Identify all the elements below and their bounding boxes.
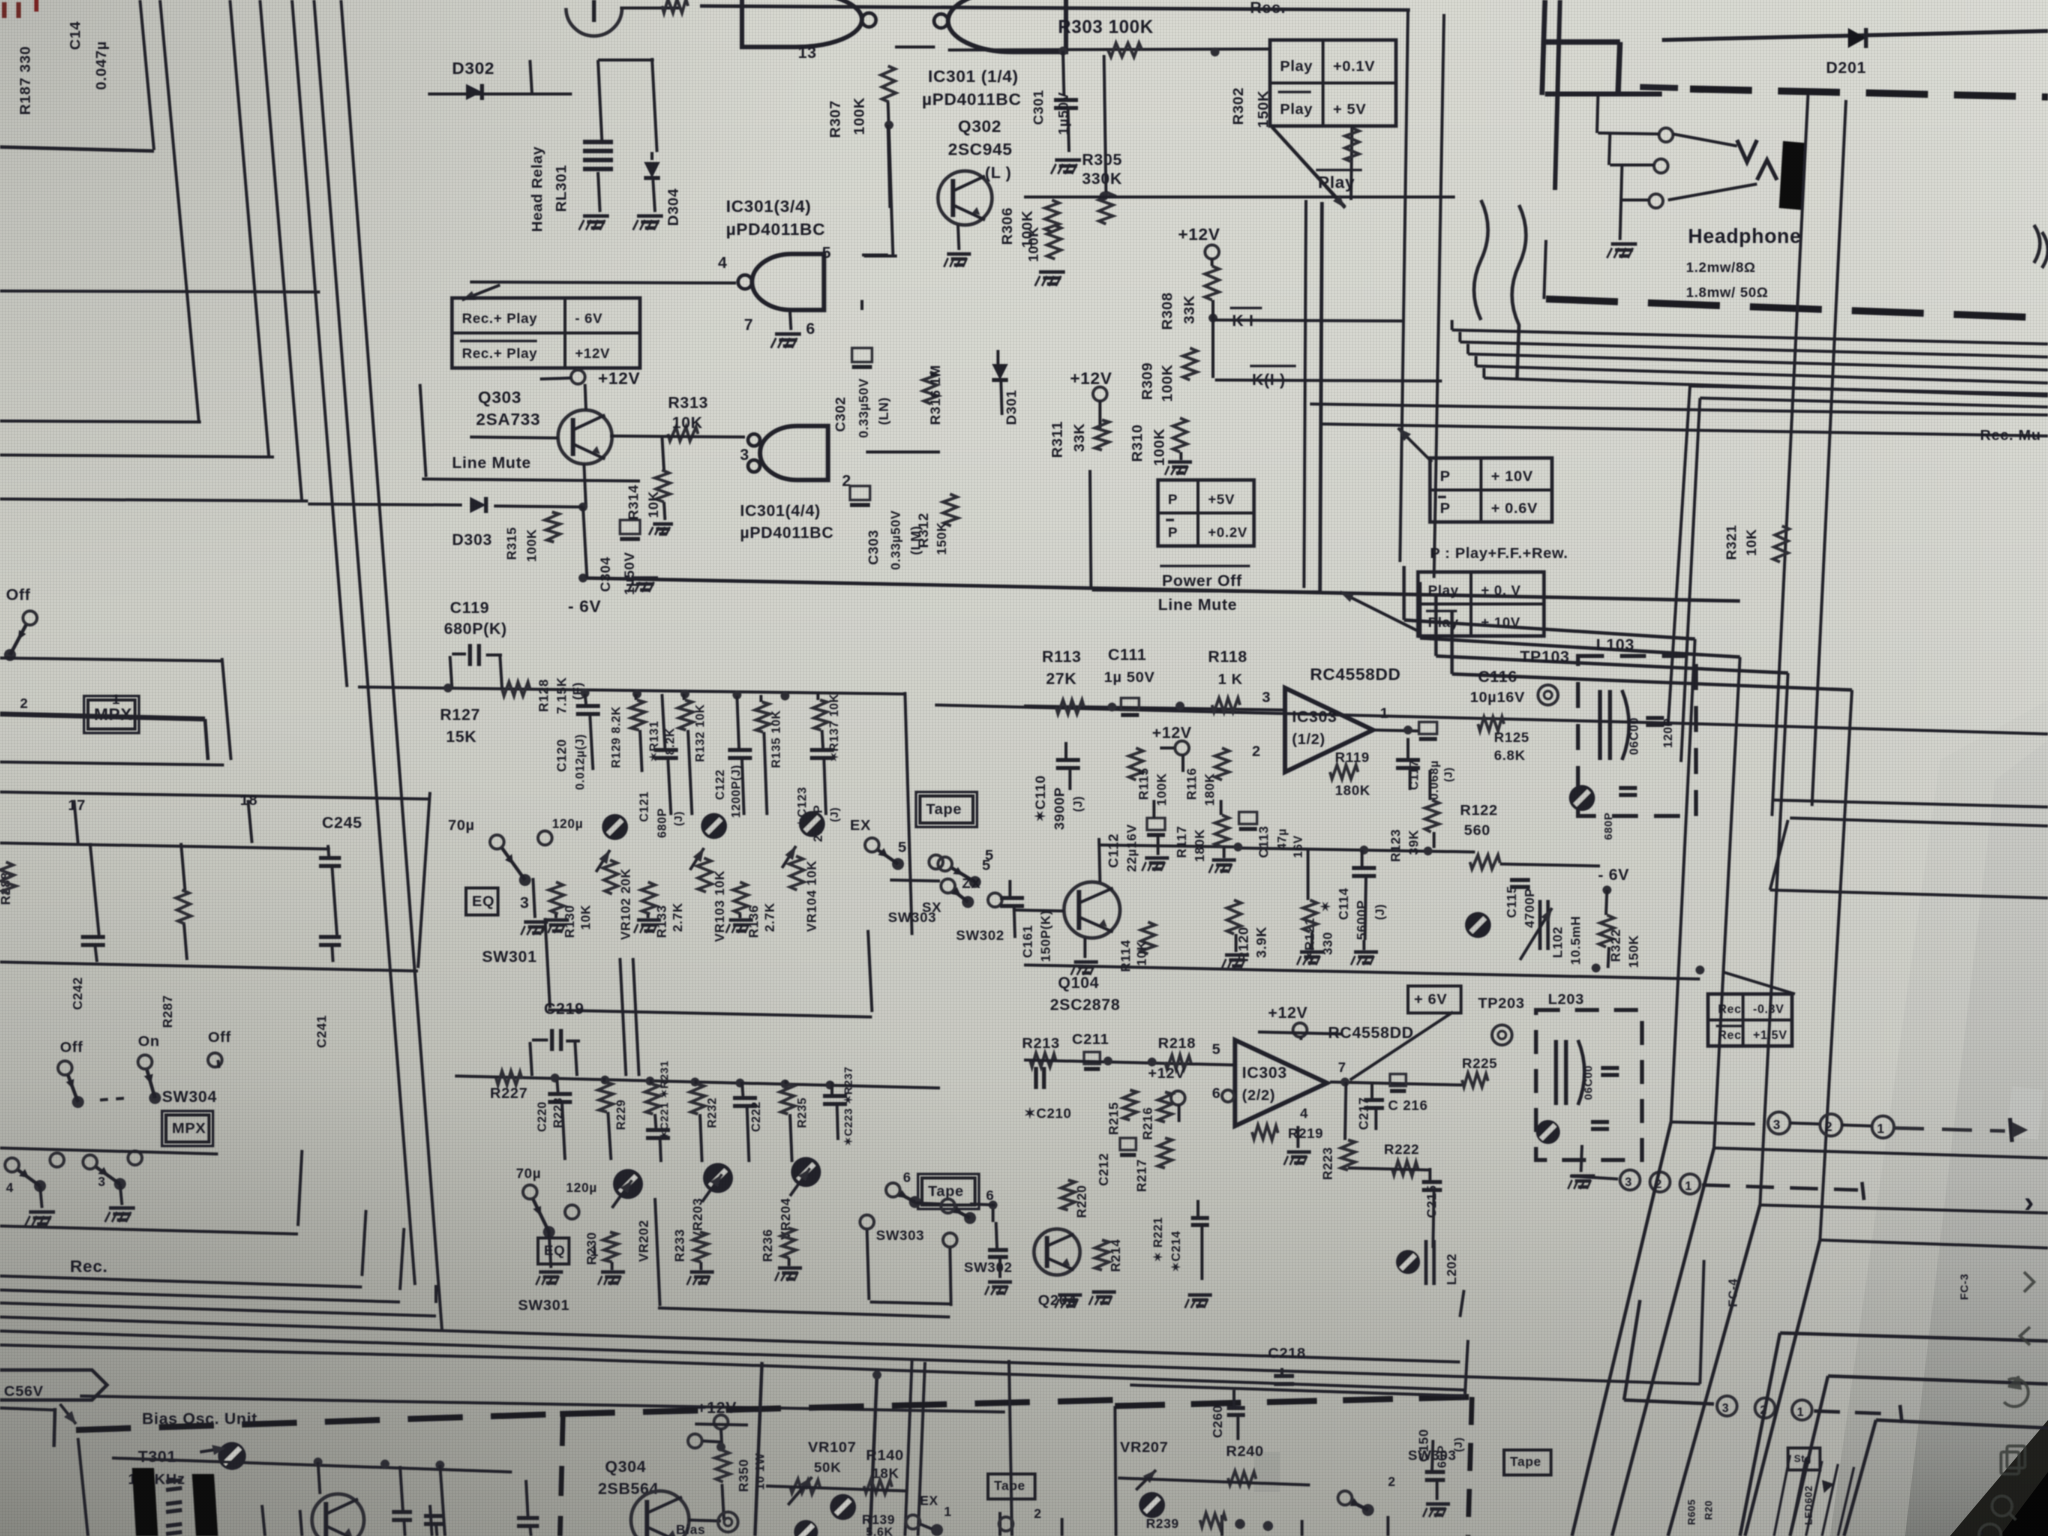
switch SW301 row2 bbox=[523, 1185, 537, 1199]
wire dashed to edge bbox=[1894, 1128, 2005, 1131]
resistor R122 bbox=[1470, 855, 1500, 869]
trimmer T301 bbox=[218, 1442, 246, 1470]
capacitor C122 bbox=[737, 696, 739, 748]
table Play +0.1V +5V bbox=[1270, 40, 1396, 126]
resistor R121 bbox=[1303, 900, 1317, 932]
vertical x1115 bbox=[1115, 1406, 1116, 1536]
resistor R213 bbox=[1030, 1053, 1056, 1067]
dashed heavy line top-right bbox=[1640, 87, 1678, 88]
trimmer VR103 circle bbox=[701, 813, 727, 839]
label Tape box 3 bbox=[988, 1474, 1035, 1499]
dashed bias top right extension bbox=[1115, 1397, 1470, 1406]
wire lower right corner 3 bbox=[1760, 1205, 2048, 1213]
dashed vertical right of bias bbox=[1468, 1397, 1472, 1536]
resistor R303 bbox=[1108, 43, 1142, 57]
L203 capacitor bbox=[1601, 1066, 1619, 1070]
wire K I east bbox=[1215, 320, 1405, 321]
transistor Q104 bbox=[1064, 882, 1120, 938]
capacitor C110 bbox=[1056, 758, 1080, 762]
test point TP103 bbox=[1538, 685, 1558, 705]
resistor R120 bbox=[1227, 900, 1241, 934]
wire down to row2 a bbox=[620, 958, 626, 1076]
switch row2 right b bbox=[941, 1199, 955, 1213]
wire bias second line bbox=[80, 1396, 1005, 1412]
wire fan line 4 bbox=[1476, 366, 2048, 383]
ground relay bbox=[583, 214, 609, 218]
wire VR row bbox=[766, 1486, 908, 1491]
trimmer VR202 bbox=[613, 1169, 643, 1199]
node 2 row3 bbox=[1755, 1398, 1775, 1418]
label EQ boxed bbox=[466, 888, 498, 915]
arrow to play table bbox=[1340, 592, 1420, 632]
trimmer VR102 bbox=[596, 850, 610, 872]
capacitor C114 bbox=[1352, 866, 1376, 870]
wire long mid-lower bus bbox=[1024, 965, 1700, 979]
power +12V bias bbox=[714, 1415, 728, 1429]
resistor R123 bbox=[1425, 800, 1439, 832]
wire middle bus 4 bbox=[1452, 674, 1852, 690]
node 1 bbox=[1872, 1116, 1894, 1138]
resistor R118 bbox=[1212, 698, 1240, 712]
dark corner bottom-right bbox=[1950, 1420, 2048, 1536]
wire fan line 3 bbox=[1468, 354, 2048, 370]
wire opamp1 input row bbox=[1024, 706, 1285, 710]
box rec-mute top edge bbox=[1690, 386, 2048, 394]
resistor R310 bbox=[1173, 418, 1187, 452]
arrow diagonal from table bbox=[1272, 127, 1345, 207]
grounds MPX bbox=[40, 1186, 42, 1208]
transistor Q303 bbox=[558, 410, 612, 464]
label MPX upper boxed bbox=[88, 700, 135, 729]
resistor R219 bbox=[1252, 1125, 1278, 1140]
ground L203 bbox=[1581, 1145, 1582, 1172]
resistor R223 bbox=[1341, 1140, 1355, 1170]
resistor R240 bbox=[1228, 1471, 1256, 1486]
capacitor C241 bbox=[319, 935, 341, 939]
corner up right bbox=[1465, 1340, 1468, 1394]
row2 junctions bbox=[551, 1074, 560, 1083]
ground R120 bbox=[1235, 934, 1238, 952]
wire Q304 base bbox=[688, 1520, 721, 1521]
box power-off outline bbox=[1090, 470, 1091, 588]
wire EQ row 2 bbox=[455, 1076, 940, 1088]
wire K II east bbox=[1215, 380, 1442, 381]
ground bbox=[1039, 270, 1065, 274]
diagonal pointer bbox=[1723, 972, 1795, 994]
wire right single east bbox=[1770, 890, 2048, 898]
jack contact V bbox=[1737, 140, 1757, 162]
wire off box bbox=[0, 658, 222, 661]
wire big box bottom bbox=[935, 705, 1668, 723]
wire relay top bbox=[598, 59, 654, 62]
wire vertical pair below staircase bbox=[905, 1360, 912, 1536]
capacitor C161 bbox=[1000, 896, 1024, 900]
resistor R217 bbox=[1158, 1138, 1172, 1168]
wire band line F bbox=[0, 1331, 1700, 1384]
wire bottom stubs bbox=[262, 1505, 265, 1536]
label Tape box row1 bbox=[920, 796, 973, 823]
wire gate4 out bbox=[866, 451, 940, 454]
connector squiggle b bbox=[1512, 205, 1526, 380]
node 1 row2 bbox=[1680, 1174, 1700, 1194]
capacitor C221 bbox=[655, 1114, 656, 1128]
wire bus line 2 bbox=[230, 0, 269, 458]
trimmer VR207 bbox=[1136, 1470, 1156, 1490]
trimmer VR107 adj bbox=[830, 1494, 856, 1520]
terminal row2 bbox=[50, 1153, 64, 1167]
junction K line bbox=[1209, 314, 1218, 323]
test point TP203 bbox=[1492, 1025, 1512, 1045]
dashed row2 bbox=[1702, 1185, 1858, 1190]
wire band line E bbox=[0, 1317, 1460, 1362]
grounds bbox=[1354, 950, 1378, 954]
power +6V box bbox=[1408, 986, 1461, 1013]
capacitor C260 bbox=[1227, 1406, 1245, 1410]
power +12V opamp1 bbox=[1175, 741, 1189, 755]
trimmer VR203 bbox=[703, 1163, 733, 1193]
wire bias top solid bbox=[569, 1359, 1465, 1390]
capacitor C212 bbox=[1120, 1138, 1136, 1150]
wire R122 east bbox=[1500, 864, 1600, 866]
resistor R117 bbox=[1215, 815, 1229, 847]
node 3 row2 bbox=[1620, 1170, 1640, 1190]
ground D304 bbox=[637, 214, 663, 218]
L203 cap2 bbox=[1591, 1120, 1609, 1124]
wire inner row bbox=[0, 843, 330, 849]
label Stg boxed bbox=[1788, 1448, 1820, 1470]
power +12V opamp2 top bbox=[1293, 1023, 1307, 1037]
resistor R316 bbox=[923, 372, 938, 404]
wire long line-mute bottom bbox=[583, 578, 1740, 601]
trimmer VR204 bbox=[791, 1157, 821, 1187]
transistor bias left bbox=[312, 1494, 364, 1536]
resistor R132 bbox=[678, 700, 693, 730]
terminal SW302 row2 bbox=[943, 1233, 957, 1247]
wire main control line bbox=[1024, 196, 1455, 199]
NAND gate IC301(3/4) mirrored bbox=[752, 254, 824, 310]
vertical 18 bbox=[248, 800, 252, 843]
resistor R309 bbox=[1183, 348, 1197, 380]
resistor R315 bbox=[545, 512, 560, 542]
wire fan line 6 bbox=[1310, 404, 2048, 415]
capacitor C210 bbox=[1034, 1067, 1038, 1089]
wire fan line 2 bbox=[1460, 342, 2048, 357]
wire R305 column bbox=[1104, 55, 1106, 192]
capacitor C303 bbox=[850, 486, 870, 500]
power +12V mid bbox=[1093, 387, 1107, 401]
box corner bottom-left of bias bbox=[0, 1408, 55, 1410]
vertical continuation 4 bbox=[1745, 1240, 1820, 1536]
inductor L203 dashed box bbox=[1536, 1010, 1642, 1160]
ground R230 bbox=[611, 1262, 614, 1270]
bias wires bbox=[440, 1465, 445, 1536]
switch MPX a bbox=[58, 1061, 72, 1075]
resistor R125 bbox=[1478, 717, 1504, 731]
power +12V Q303 bbox=[571, 370, 585, 384]
node 1 row3 bbox=[1792, 1400, 1812, 1420]
label Tape box 4 bbox=[1504, 1450, 1551, 1475]
dashed row3 bbox=[1814, 1411, 1896, 1414]
wire box vertical x762 bbox=[755, 1362, 762, 1536]
jack terminal 3 bbox=[1649, 194, 1663, 208]
verticals from headphone dash down bbox=[1772, 95, 1808, 816]
resistor R313 bbox=[668, 427, 698, 441]
inductor L103 dashed box bbox=[1578, 656, 1696, 816]
jack terminal 2 bbox=[1654, 159, 1668, 173]
resistor R135 bbox=[755, 702, 770, 732]
variable resistor VR107 bbox=[790, 1479, 820, 1494]
resistor R115 bbox=[1129, 748, 1143, 780]
capacitor C115 bbox=[1510, 878, 1530, 882]
terminal double bias bbox=[718, 1512, 738, 1532]
resistor R218 bbox=[1165, 1055, 1191, 1069]
resistor R350 bbox=[715, 1450, 730, 1482]
junction -6V bbox=[1603, 886, 1612, 895]
wire opamp2 row bbox=[1024, 1060, 1235, 1065]
resistor R133 bbox=[641, 882, 656, 914]
wire bias row bbox=[112, 1458, 512, 1472]
capacitor C111 bbox=[1121, 698, 1139, 710]
table P +10V +0.6V bbox=[1430, 458, 1552, 522]
resistor R137 bbox=[813, 700, 828, 730]
wire pair right of box bbox=[1304, 200, 1306, 588]
trimmer L103 bbox=[1569, 785, 1595, 811]
wire EX link bbox=[890, 880, 940, 881]
table Rec -0.3V +1.5V bbox=[1708, 994, 1792, 1046]
switch MPX b bbox=[138, 1055, 152, 1069]
wire bus line 1 bbox=[160, 0, 199, 423]
wire emitter to -6V bbox=[584, 464, 586, 507]
wire link bbox=[915, 1203, 940, 1204]
arrow from C56V bbox=[60, 1404, 76, 1424]
wire gate2 output bbox=[895, 46, 935, 49]
resistor R232 bbox=[690, 1084, 705, 1114]
resistor R227 bbox=[496, 1071, 522, 1085]
capacitor C245 sym bbox=[319, 856, 341, 860]
wire mid join bbox=[1238, 848, 1475, 852]
resistor R220 bbox=[1061, 1180, 1075, 1210]
resistor R216 bbox=[1158, 1092, 1172, 1122]
capacitor C222 bbox=[742, 1082, 743, 1096]
switch row3 bbox=[1338, 1491, 1352, 1505]
LED602 cluster verticals bbox=[1774, 1455, 1790, 1536]
frame row2 staircase bbox=[655, 1198, 660, 1306]
capacitor C120 bbox=[585, 694, 586, 704]
wire base-gate4 bbox=[610, 436, 745, 437]
transistor Q304 bbox=[631, 1491, 689, 1536]
wire middle bus 1 bbox=[1404, 620, 1695, 639]
wire MPX frame bbox=[0, 1148, 218, 1154]
wire thick stub bbox=[0, 714, 205, 719]
trimmer VR104 circle bbox=[799, 811, 825, 837]
table Rec.+Play -6V +12V bbox=[452, 298, 640, 368]
box inner right edge bbox=[1320, 202, 1322, 592]
junction dots bottom bbox=[1235, 1519, 1245, 1529]
trimmer VR104 bbox=[782, 846, 796, 868]
wire bus line 4 bbox=[292, 0, 347, 687]
resistor R306 bbox=[1045, 200, 1059, 232]
box relay control outline bbox=[700, 6, 1410, 10]
wire gate3 right bbox=[888, 125, 890, 208]
dashed heavy line below headphone bbox=[1546, 299, 2048, 318]
label EQ boxed row2 bbox=[538, 1238, 569, 1264]
label MPX boxed bbox=[166, 1115, 209, 1142]
vertical 17 bbox=[74, 800, 78, 843]
box C245 bbox=[0, 792, 430, 799]
terminal left bbox=[688, 1434, 702, 1448]
wire R222 net bbox=[1348, 1168, 1430, 1170]
capacitor 120P bbox=[1646, 716, 1664, 720]
switch row2 right a bbox=[886, 1183, 900, 1197]
wire Q104 collector bbox=[1099, 838, 1100, 882]
resistor R312 bbox=[943, 494, 958, 526]
relay coil RL301 bbox=[583, 140, 613, 145]
resistor R114 bbox=[1141, 922, 1155, 954]
EQ row1 junctions bbox=[581, 689, 590, 698]
wire middle bus 3 bbox=[1436, 656, 1788, 673]
transformer T301 core bars bbox=[132, 1468, 158, 1536]
capacitor bias a bbox=[392, 1510, 412, 1514]
capacitor C304 bbox=[583, 507, 587, 578]
capacitor left edge bias bbox=[517, 1516, 539, 1520]
wire jack verticals bbox=[1597, 95, 1598, 133]
vertical continuation 1 bbox=[1572, 1122, 1671, 1536]
resistor R311 bbox=[1095, 420, 1109, 450]
wire row1 right bbox=[905, 692, 912, 935]
wire connector row 1 line east bbox=[1714, 1148, 2048, 1158]
wire bottom edge stubs bbox=[999, 1512, 1002, 1536]
wire lower right corner 4 bbox=[1820, 1240, 2048, 1248]
grounds row1 bbox=[545, 918, 569, 922]
capacitor C112 bbox=[1147, 818, 1165, 830]
wire top bbox=[620, 7, 680, 10]
capacitor C123 bbox=[810, 748, 834, 752]
wire right vertical 1 bbox=[1671, 639, 1695, 1122]
capacitor C119 loop bbox=[450, 656, 452, 688]
dot pair bbox=[1235, 1519, 1245, 1529]
wire bus line 5 bbox=[314, 0, 415, 1285]
wire R303 row bbox=[948, 49, 1270, 50]
nested corner 2 bbox=[1828, 1376, 2048, 1384]
resistor R322 bbox=[1599, 915, 1614, 947]
wire bus line 3 bbox=[260, 0, 302, 502]
vertical continuation 3 bbox=[1668, 1205, 1760, 1536]
wire fan feeders bbox=[1451, 320, 1454, 330]
wire vertical x877 bbox=[870, 1374, 877, 1536]
switch MPX row2 b bbox=[83, 1155, 97, 1169]
resistor R229 bbox=[645, 1084, 660, 1114]
dashed bias box top bbox=[76, 1414, 560, 1430]
wire frame right bbox=[867, 1230, 869, 1300]
wire fan line 5 bbox=[1484, 378, 2048, 396]
T301 core lines bbox=[166, 1480, 182, 1482]
switch MPX row2 a bbox=[5, 1158, 19, 1172]
resistor top bbox=[662, 0, 688, 13]
wire to D302 bbox=[428, 93, 572, 96]
box top-left outer edge bbox=[0, 291, 320, 292]
resistor R130 bbox=[549, 882, 564, 914]
inductor L202 bbox=[1424, 1240, 1428, 1285]
power +12V R308 bbox=[1205, 245, 1219, 259]
ground C304 bbox=[632, 576, 658, 580]
resistor R113 bbox=[1056, 700, 1084, 714]
node 3 bbox=[1768, 1112, 1790, 1134]
L203 coil bbox=[1554, 1040, 1558, 1105]
capacitor C113 bbox=[1239, 812, 1257, 824]
bias box left vertical bbox=[78, 1438, 88, 1536]
capacitor C220 bbox=[557, 1080, 558, 1092]
transistor Q302 bbox=[938, 171, 992, 225]
power +12V opamp2 left bbox=[1171, 1091, 1185, 1105]
wire stub corner bbox=[205, 719, 208, 760]
nested corner 1 bbox=[1780, 1333, 2048, 1341]
resistor R215 bbox=[1123, 1090, 1137, 1120]
wire bias top solid left part bbox=[0, 1345, 569, 1359]
table Play +0.1V +10V bbox=[1418, 572, 1544, 636]
ground C150 bbox=[1426, 1502, 1450, 1506]
capacitor C216 bbox=[1390, 1074, 1406, 1086]
ground R310 bbox=[1180, 452, 1183, 460]
wire band line D bbox=[0, 1303, 436, 1316]
switch MPX c bbox=[208, 1053, 222, 1067]
trimmer VR102 circle bbox=[602, 814, 628, 840]
resistor R235 bbox=[780, 1084, 795, 1114]
terminal bbox=[929, 855, 943, 869]
capacitor C302 bbox=[852, 348, 872, 362]
resistor R302 bbox=[1345, 128, 1359, 162]
box rec-mute left verticals bbox=[1668, 386, 1690, 726]
label C56V box bbox=[0, 1370, 107, 1400]
wire opamp1 out bbox=[1373, 730, 1420, 731]
capacitor C251 bbox=[996, 1222, 997, 1248]
ground Q104 bbox=[1084, 938, 1087, 958]
NOR gate IC301(4/4) bbox=[760, 426, 828, 480]
trimmer below bbox=[794, 1520, 818, 1536]
trimmer L202 bbox=[1396, 1250, 1420, 1274]
vertical line R302 bbox=[1351, 126, 1352, 200]
bias box right dashed vertical bbox=[560, 1416, 563, 1536]
wire fan line 1 bbox=[1452, 330, 2048, 344]
capacitor C211 bbox=[1084, 1052, 1100, 1064]
wire base bbox=[470, 437, 558, 438]
terminal SW303 row2 bbox=[860, 1215, 874, 1229]
switch SX bbox=[941, 879, 955, 893]
resistor 100K bbox=[1047, 225, 1061, 259]
wire band line A bbox=[0, 1226, 298, 1234]
terminal 2 ex bbox=[999, 1517, 1013, 1531]
trimmer 2 bbox=[1139, 1492, 1165, 1518]
trimmer mid bbox=[1465, 912, 1491, 938]
wire middle bus 2 bbox=[1420, 638, 1740, 657]
wire bus line 6 bbox=[341, 0, 442, 1330]
wire -6V down bbox=[1608, 947, 1609, 968]
wire band line B bbox=[0, 1276, 362, 1287]
L103 inner coil bbox=[1598, 690, 1602, 760]
capacitor C301 bbox=[1063, 51, 1064, 96]
transistor Q204 bbox=[1034, 1229, 1080, 1275]
inductor L102 bbox=[1538, 900, 1542, 950]
resistor R308 bbox=[1205, 266, 1219, 300]
resistor R233 bbox=[693, 1232, 708, 1262]
terminal 120u bbox=[565, 1205, 579, 1219]
op-amp IC303 1/2 bbox=[1285, 688, 1373, 772]
ground C301 bbox=[1055, 158, 1081, 162]
jack sleeve black bar bbox=[1779, 141, 1806, 210]
vertical continuation 2 bbox=[1612, 1148, 1714, 1536]
diode D304 bbox=[644, 162, 660, 178]
connector squiggle a bbox=[1474, 200, 1488, 320]
capacitor C214 bbox=[1191, 1216, 1209, 1220]
